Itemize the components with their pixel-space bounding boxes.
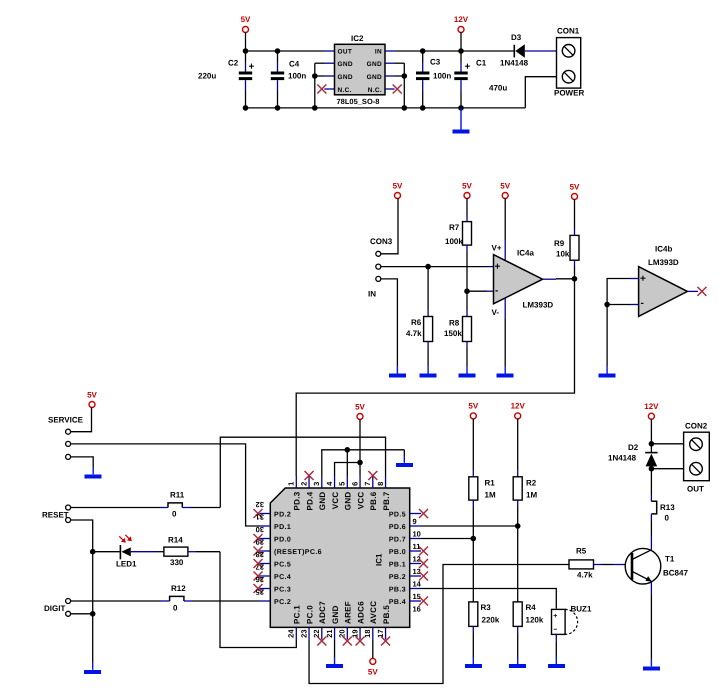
svg-text:PB.1: PB.1 [389, 562, 406, 569]
IC1 pin 12 (PB.0) right [389, 547, 428, 564]
svg-text:D3: D3 [511, 33, 522, 42]
connector CON2 OUT [684, 422, 710, 494]
svg-text:IC1: IC1 [375, 553, 384, 566]
connector CON1 POWER [554, 27, 584, 98]
IC1 pin 3 (GND) top [312, 476, 327, 510]
ground below BUZ1 [548, 657, 565, 668]
IC1 pin 5 (GND) top [338, 476, 353, 510]
svg-text:VCC: VCC [331, 492, 340, 510]
svg-text:PD.5: PD.5 [389, 512, 406, 519]
svg-text:PC.4: PC.4 [274, 574, 291, 581]
IC1 pin 4 (VCC) top [325, 476, 340, 509]
wire SERVICE pin3 to ground [71, 457, 94, 468]
wire 12V node to D3 [461, 50, 514, 52]
svg-text:R11: R11 [170, 491, 185, 500]
supply 5V (R9) [570, 183, 580, 200]
wire CON3 pin1 to 5V [381, 198, 398, 254]
wire 5V to V+ [504, 198, 506, 260]
resistor R14 330 [164, 536, 220, 567]
svg-text:PB.0: PB.0 [389, 549, 406, 556]
IC1 pin 26 (PC.3) left [254, 575, 292, 594]
svg-text:R1: R1 [485, 479, 496, 488]
node junctions on bottom rail [243, 105, 464, 111]
svg-text:R4: R4 [526, 603, 537, 612]
svg-text:21: 21 [325, 630, 334, 638]
svg-text:5V: 5V [500, 182, 510, 191]
svg-text:N.C.: N.C. [368, 87, 382, 94]
svg-text:C2: C2 [228, 59, 239, 68]
supply 5V (IC1 VCC) [355, 403, 365, 463]
node junction D2 top [649, 441, 655, 447]
svg-text:GND: GND [367, 61, 382, 68]
svg-text:PB.6: PB.6 [369, 491, 378, 510]
IC2 right GND pins wiring [385, 63, 404, 108]
svg-text:PD.2: PD.2 [274, 512, 291, 519]
svg-text:220k: 220k [482, 616, 500, 625]
svg-text:27: 27 [256, 563, 264, 572]
wire RESET/DIGIT vertical to ground [92, 552, 94, 663]
ground below IC4a V- [497, 366, 514, 378]
svg-text:PB.4: PB.4 [389, 599, 406, 606]
svg-text:R9: R9 [554, 239, 565, 248]
svg-text:R2: R2 [526, 479, 537, 488]
node junction CON3 pin2 / R6 [425, 264, 431, 270]
ground below IC4b [599, 366, 616, 378]
svg-text:GND: GND [318, 492, 327, 511]
svg-text:ADC7: ADC7 [318, 601, 327, 624]
svg-text:5V: 5V [570, 183, 580, 192]
svg-text:32: 32 [256, 500, 264, 509]
IC1 pin 24 (PC.1) bottom [287, 605, 302, 640]
svg-text:+: + [553, 613, 558, 620]
capacitor C4 [271, 51, 307, 108]
svg-text:5V: 5V [393, 182, 403, 191]
node junction R7/R8 (reference divider) [464, 288, 470, 294]
svg-text:2: 2 [299, 482, 308, 486]
node junction LED1 [90, 549, 96, 555]
wire comparator output to IC1 PD.3 (pin 1) [296, 279, 574, 476]
IC1 pin 8 (PB.7) top [376, 476, 391, 511]
IC4b output no-connect X [687, 287, 706, 296]
svg-text:12V: 12V [511, 402, 526, 411]
svg-text:10k: 10k [556, 250, 570, 259]
svg-text:1M: 1M [485, 491, 496, 500]
svg-text:IC4b: IC4b [655, 245, 672, 254]
resistor R7 100k [445, 198, 472, 291]
wires IC4b inputs tied to ground [607, 279, 639, 367]
node junction IC4b inputs [604, 302, 610, 308]
connector RESET [42, 505, 71, 523]
svg-text:C3: C3 [430, 58, 441, 67]
node junction C3 top [420, 48, 426, 54]
IC1 pin 21 (GND) bottom [325, 605, 340, 639]
svg-text:0: 0 [172, 510, 177, 519]
capacitor C2 [198, 51, 255, 108]
svg-text:LED1: LED1 [116, 560, 137, 569]
IC2 left GND pins wiring [315, 63, 335, 108]
svg-text:PD.7: PD.7 [389, 537, 406, 544]
IC2 left N.C. pin with no-connect X [317, 85, 334, 94]
svg-text:R8: R8 [449, 319, 460, 328]
supply 12V (R2) [511, 402, 526, 419]
node junction IC2 left GND [312, 73, 318, 79]
svg-text:R3: R3 [481, 603, 492, 612]
IC1 pin 2 (PD.4) top [299, 471, 314, 511]
svg-text:26: 26 [256, 575, 264, 584]
svg-text:R5: R5 [576, 547, 587, 556]
node junction 5V/C2 [243, 48, 249, 54]
svg-text:(RESET)PC.6: (RESET)PC.6 [274, 548, 322, 556]
svg-text:PC.5: PC.5 [274, 562, 291, 569]
svg-text:IC2: IC2 [351, 34, 364, 43]
IC1 pin 17 (PB.5) bottom [376, 605, 391, 646]
IC1 pin 30 (PD.0) left [254, 525, 292, 544]
IC2 right N.C. pin with no-connect X [385, 85, 402, 94]
wire DIGIT pin2 to net [71, 613, 93, 615]
IC1 pin 19 (ADC6) bottom [350, 601, 365, 646]
svg-text:BUZ1: BUZ1 [571, 605, 592, 614]
ground below R3 [465, 657, 482, 668]
supply 5V (CON3) [393, 182, 403, 199]
IC1 pin 18 (AVCC) bottom [363, 601, 378, 640]
wire IC4a output [543, 278, 575, 280]
supply 12V (top) [454, 15, 469, 51]
svg-text:5: 5 [338, 482, 347, 486]
supply 5V (top, above C2) [241, 15, 251, 51]
svg-text:4.7k: 4.7k [406, 329, 422, 338]
node junction DIGIT pin2 [90, 611, 96, 617]
ground below IC1 pin 21 [326, 639, 343, 668]
svg-text:+: + [249, 62, 255, 73]
diode D2 1N4148 [608, 443, 658, 469]
svg-text:LM393D: LM393D [648, 258, 679, 267]
IC1 pin 6 (VCC) top [350, 476, 365, 509]
svg-text:10: 10 [413, 529, 421, 538]
IC1 pin 28 (PC.5) left [254, 550, 292, 569]
wire IC1 PB.3 (pin 15) to buzzer [421, 589, 556, 609]
svg-text:18: 18 [363, 630, 372, 638]
svg-text:PD.3: PD.3 [293, 491, 302, 510]
IC1 pin 7 (PB.6) top [363, 471, 378, 511]
node junction C4 top [275, 48, 281, 54]
svg-text:3: 3 [312, 482, 321, 486]
svg-text:PD.1: PD.1 [274, 524, 291, 531]
svg-text:C4: C4 [289, 60, 300, 69]
ground below RESET/DIGIT [84, 663, 101, 674]
svg-text:CON3: CON3 [370, 237, 393, 246]
IC1 pin 11 (PD.7) right [389, 537, 421, 551]
svg-text:R7: R7 [449, 223, 460, 232]
connector SERVICE [48, 416, 84, 460]
ground below SERVICE [85, 468, 102, 479]
IC1 pin 13 (PB.1) right [389, 559, 428, 576]
svg-text:RESET: RESET [42, 511, 69, 520]
node junction GND net [345, 447, 351, 453]
svg-text:29: 29 [256, 538, 264, 547]
bottom GND rail of power section [246, 107, 526, 109]
svg-text:23: 23 [299, 630, 308, 638]
svg-text:5V: 5V [368, 668, 378, 677]
svg-text:19: 19 [350, 630, 359, 638]
IC1 pin 22 (ADC7) bottom [312, 601, 327, 646]
svg-text:1: 1 [287, 482, 296, 486]
svg-text:DIGIT: DIGIT [44, 604, 65, 613]
svg-text:5V: 5V [468, 402, 478, 411]
node junction R1 / PD.7 [471, 536, 477, 542]
wire divider to comparator - input [467, 290, 494, 292]
svg-text:+: + [640, 274, 646, 285]
svg-text:R14: R14 [168, 536, 183, 545]
svg-text:PD.4: PD.4 [305, 491, 314, 510]
svg-text:CON2: CON2 [685, 422, 708, 431]
IC1 pin 14 (PB.2) right [389, 572, 428, 589]
capacitor C1 [454, 51, 507, 108]
svg-text:-: - [641, 298, 645, 309]
node junction IC2 right GND [402, 73, 408, 79]
svg-text:PC.2: PC.2 [274, 599, 291, 606]
wires to CON2 [651, 444, 683, 469]
svg-text:150k: 150k [444, 329, 462, 338]
svg-text:−: − [553, 627, 558, 634]
IC1 pin 15 (PB.3) right [389, 587, 421, 601]
ground below R6 [420, 366, 437, 378]
svg-text:0: 0 [173, 604, 178, 613]
buzzer BUZ1 [552, 605, 592, 658]
resistor R12 0 (jumper) [71, 584, 260, 613]
svg-text:470u: 470u [489, 84, 507, 93]
svg-text:-: - [495, 286, 499, 297]
svg-text:IC4a: IC4a [517, 249, 534, 258]
svg-text:PB.3: PB.3 [389, 587, 406, 594]
svg-text:PC.3: PC.3 [274, 587, 291, 594]
resistor R8 150k [444, 291, 472, 366]
resistor R13 0 (jumper) [651, 469, 675, 536]
svg-text:12V: 12V [644, 402, 659, 411]
op-amp comparator IC4a LM393D [492, 244, 554, 317]
transistor T1 BC847 [625, 536, 688, 659]
svg-text:25: 25 [256, 588, 264, 597]
svg-text:12V: 12V [454, 15, 469, 24]
svg-text:POWER: POWER [554, 89, 584, 98]
resistor R4 120K [513, 602, 544, 657]
connector CON3 [368, 237, 393, 299]
svg-text:GND: GND [338, 74, 353, 81]
svg-text:100n: 100n [288, 72, 306, 81]
svg-text:GND: GND [338, 61, 353, 68]
svg-text:17: 17 [376, 630, 385, 638]
svg-text:VCC: VCC [356, 492, 365, 510]
svg-text:PD.6: PD.6 [389, 524, 406, 531]
svg-text:1N4148: 1N4148 [608, 454, 637, 463]
ground below T1 emitter [643, 659, 660, 670]
svg-text:6: 6 [350, 482, 359, 486]
wire IC1 PD.7 (pin 11) to R1 [421, 538, 473, 540]
resistor R11 0 (jumper) [71, 491, 221, 519]
svg-text:5V: 5V [355, 403, 365, 412]
microcontroller IC1 body [270, 488, 409, 627]
svg-text:28: 28 [256, 550, 264, 559]
ground below R8 [459, 366, 476, 378]
supply 12V (CON2) [644, 402, 659, 444]
svg-text:D2: D2 [628, 443, 639, 452]
svg-text:BC847: BC847 [663, 569, 688, 578]
wire V- to ground [504, 298, 506, 366]
svg-text:+: + [495, 262, 501, 273]
svg-text:CON1: CON1 [557, 27, 580, 36]
resistor R2 1M [513, 419, 537, 602]
resistor R9 10k [554, 199, 579, 278]
node junction 12V/C1 [458, 48, 464, 54]
svg-text:ADC6: ADC6 [356, 601, 365, 624]
svg-text:24: 24 [287, 629, 296, 638]
IC1 pin 29 ((RESET)PC.6) left [254, 538, 322, 557]
svg-text:V-: V- [492, 308, 500, 317]
resistor R3 220K [469, 602, 500, 657]
svg-text:78L05_SO-8: 78L05_SO-8 [337, 97, 380, 106]
wire CON3 pin3 to ground [381, 279, 398, 366]
wire pin 23 (PC.0) to R5 [309, 565, 569, 684]
svg-text:R6: R6 [411, 318, 422, 327]
wire R11 net to pin 8 (PB.7) [220, 437, 385, 507]
wire 5V rail to IC2 OUT [246, 50, 335, 52]
svg-text:120k: 120k [526, 616, 544, 625]
IC1 pin 10 (PD.6) right [389, 524, 421, 538]
svg-text:LM393D: LM393D [523, 301, 554, 310]
svg-text:7: 7 [363, 482, 372, 486]
svg-text:20: 20 [338, 630, 347, 638]
svg-text:AREF: AREF [344, 601, 353, 624]
IC2 right IN pin wire [385, 50, 423, 52]
svg-text:22: 22 [312, 630, 321, 638]
supply 5V (R7) [462, 182, 472, 199]
wire IC1 PD.6 (pin 10) to R2 [421, 525, 518, 527]
node junction IC4a output / R9 [572, 276, 578, 282]
svg-text:IN: IN [368, 290, 376, 299]
ground at IC1 top right [396, 450, 413, 467]
wire CON3 pin2 to comparator + input [381, 266, 494, 268]
resistor R5 4.7k [569, 547, 625, 580]
svg-text:8: 8 [376, 482, 385, 486]
wire SERVICE pin1 to 5V [71, 407, 92, 431]
svg-text:PD.0: PD.0 [274, 537, 291, 544]
connector DIGIT [44, 599, 71, 617]
svg-text:OUT: OUT [687, 485, 704, 494]
svg-text:14: 14 [413, 579, 422, 588]
svg-text:1M: 1M [526, 491, 537, 500]
wire VCC net to pin 4 and pin 6 [335, 463, 361, 477]
svg-text:R13: R13 [660, 503, 675, 512]
svg-text:220u: 220u [198, 72, 216, 81]
svg-text:PC.0: PC.0 [305, 605, 314, 624]
node junction VCC net [357, 460, 363, 466]
svg-text:0: 0 [665, 514, 670, 523]
svg-text:N.C.: N.C. [338, 87, 352, 94]
ground below CON3 pin3 [389, 366, 406, 378]
diode D3 1N4148 [500, 33, 557, 68]
supply 5V (SERVICE) [87, 391, 97, 408]
supply 5V (R1) [468, 402, 478, 419]
svg-text:GND: GND [367, 74, 382, 81]
svg-text:+: + [465, 62, 471, 73]
node junction R2 / PD.6 [515, 523, 521, 529]
resistor R1 1M [469, 419, 496, 602]
wire CON1 pin2 to bottom rail [525, 77, 556, 108]
svg-text:GND: GND [344, 492, 353, 511]
svg-text:5V: 5V [241, 15, 251, 24]
IC1 pin 23 (PC.0) bottom [299, 605, 314, 640]
svg-text:T1: T1 [665, 555, 675, 564]
svg-text:PB.2: PB.2 [389, 574, 406, 581]
svg-text:PB.7: PB.7 [382, 491, 391, 510]
IC1 pin 9 (PD.5) right [389, 509, 428, 526]
svg-text:1N4148: 1N4148 [500, 59, 529, 68]
IC1 pin 20 (AREF) bottom [338, 601, 353, 645]
svg-text:100n: 100n [433, 72, 451, 81]
svg-text:PB.5: PB.5 [382, 605, 391, 624]
svg-text:AVCC: AVCC [369, 601, 378, 624]
IC1 pin 27 (PC.4) left [254, 563, 292, 582]
svg-text:IN: IN [375, 49, 382, 56]
IC1 pin 32 (PD.2) left [254, 500, 292, 519]
resistor R6 4.7k [406, 267, 433, 366]
svg-text:330: 330 [170, 558, 184, 567]
svg-text:31: 31 [256, 513, 264, 522]
wire SERVICE pin2 to pin 31 (PD.1) [71, 444, 260, 526]
IC1 pin 31 (PD.1) left [256, 513, 292, 532]
wire C3 to 12V node [423, 50, 461, 52]
svg-text:V+: V+ [492, 244, 502, 253]
capacitor C3 [416, 51, 451, 108]
op-amp comparator IC4b LM393D (unused half) [639, 245, 688, 317]
svg-text:5V: 5V [87, 391, 97, 400]
LED LED1 [93, 535, 164, 569]
svg-text:9: 9 [413, 517, 417, 526]
supply 5V (IC4a V+) [500, 182, 510, 199]
IC1 pin 25 (PC.2) left [256, 588, 292, 607]
svg-text:R12: R12 [171, 584, 186, 593]
svg-text:4.7k: 4.7k [577, 571, 593, 580]
svg-text:5V: 5V [462, 182, 472, 191]
ground below C1 [453, 108, 470, 134]
svg-text:OUT: OUT [338, 49, 353, 56]
voltage regulator IC2 78L05_SO-8 [335, 34, 386, 106]
wire RESET pin2 down [71, 520, 93, 552]
svg-text:PC.1: PC.1 [293, 605, 302, 624]
supply 5V (IC1 AVCC, below) [368, 639, 378, 676]
IC1 pin 1 (PD.3) top [287, 476, 302, 511]
svg-text:100k: 100k [445, 237, 463, 246]
wire pin 24 (PC.1) to R14/LED [220, 552, 296, 648]
svg-text:SERVICE: SERVICE [48, 416, 84, 425]
svg-text:GND: GND [331, 605, 340, 624]
ground below R4 [509, 657, 526, 668]
IC1 pin 16 (PB.4) right [389, 597, 428, 614]
wire GND net pins 3 and 5 [322, 450, 405, 476]
node junction D2 bottom [649, 466, 655, 472]
svg-text:C1: C1 [476, 59, 487, 68]
